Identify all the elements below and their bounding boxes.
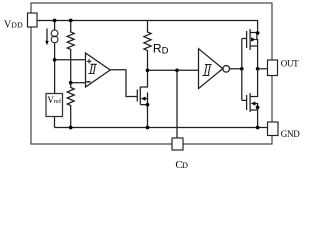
Vref reference box [46,94,63,117]
node Q1 drain-rail [256,31,260,35]
node CD branch [175,68,179,72]
resistor RD [144,21,151,71]
node rail-R1 junction [69,19,73,23]
wire output to OUT pin [258,68,268,70]
svg-text:GND: GND [281,129,300,139]
pin GND [268,122,279,136]
wire current source branch [54,21,56,94]
wire RD node to schmitt input [148,69,199,71]
svg-text:OUT: OUT [281,58,299,68]
node rail-I1 junction [53,19,57,23]
wire VDD inner rail [37,21,258,34]
wire node B to comparator - input [71,82,86,84]
node output [256,67,260,71]
node RD-M1 drain [146,68,150,72]
node A (current source / Vref / comparator +) [53,58,57,62]
current source I1 [51,30,58,37]
node R2-ground [69,126,73,130]
pin OUT [268,60,278,76]
node M1 source-bulk [146,103,150,107]
wire node A to comparator + input [55,59,86,61]
resistor R2 [67,83,74,128]
svg-text:CD: CD [175,159,188,171]
node B (divider midpoint) [69,81,73,85]
transistor Q1 p-channel [242,38,247,40]
svg-text:RD: RD [153,41,169,56]
pin VDD [28,13,38,27]
wire Vref to ground rail [54,117,56,128]
ground rail [55,127,268,129]
wire schmitt output to gates [230,68,242,70]
node Q2 source-bulk [256,105,260,109]
transistor Q2 n-channel [242,99,247,101]
node M1 source-ground [146,126,150,130]
node gate line [240,67,244,71]
svg-text:VDD: VDD [4,20,23,31]
current direction arrow [46,28,48,42]
node Q2-ground [256,126,260,130]
pin CD [172,138,183,150]
inverter U2 schmitt trigger [199,49,223,89]
wire gate line vertical [241,39,243,101]
wire comparator output to M1 gate [110,70,137,97]
wire CD branch down [176,70,178,138]
resistor R1 [67,21,74,83]
op-amp U1 comparator with hysteresis [86,53,111,87]
block border [31,3,272,144]
transistor M1 n-channel [136,90,138,102]
